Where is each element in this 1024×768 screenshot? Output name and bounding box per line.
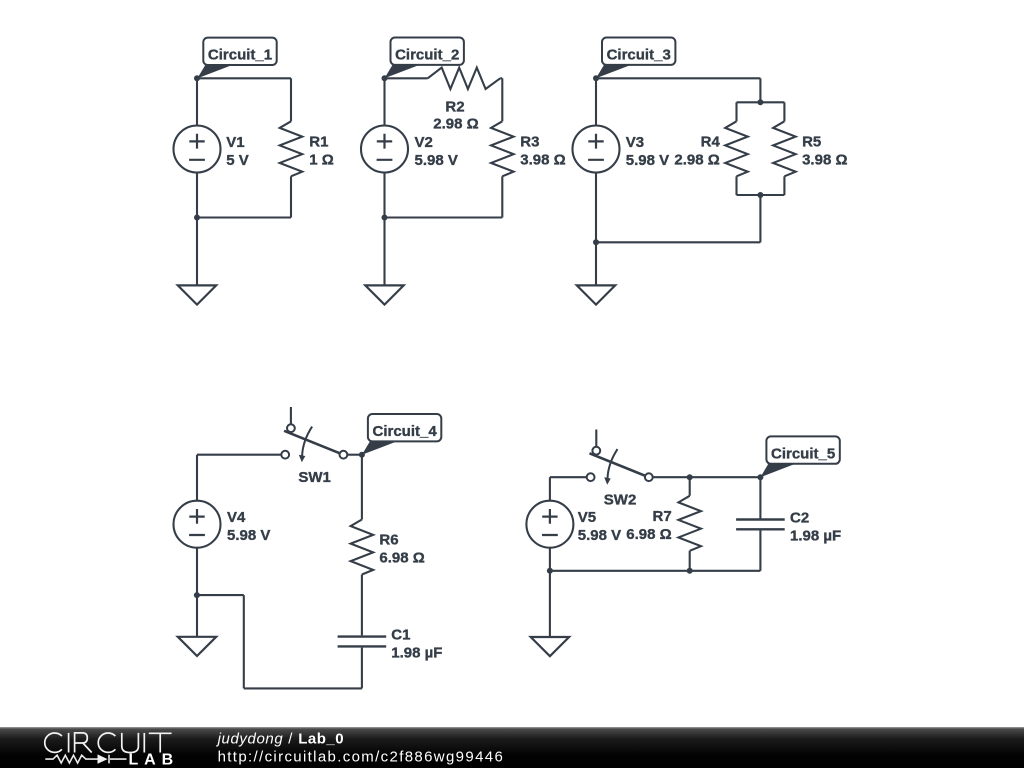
svg-text:C1: C1 [391,627,410,644]
voltage source V2 5.98 V [361,126,458,173]
wire [759,477,761,518]
svg-text:1.98 µF: 1.98 µF [391,644,442,661]
node junction dot [593,239,599,245]
node junction dot [194,215,200,221]
wire [759,531,761,571]
flag label Circuit_4 [362,414,441,455]
CircuitLab logo lettering CIRCUIT [45,733,172,753]
svg-text:V5: V5 [578,509,596,526]
resistor R5 3.98 &#937; [773,121,847,176]
ground [365,285,403,304]
wire [783,176,785,195]
switch SW2 (SPST with actuation arrow) [587,430,653,509]
svg-text:2.98 Ω: 2.98 Ω [433,116,478,133]
wire [290,176,292,217]
svg-text:1.98 µF: 1.98 µF [790,527,841,544]
svg-text:V1: V1 [226,134,244,151]
wire [244,687,362,689]
wire [361,575,363,636]
wire [689,477,691,496]
wire [385,216,503,218]
node junction dot [359,452,365,458]
svg-text:R4: R4 [701,134,721,151]
ground [531,637,569,656]
svg-text:R5: R5 [802,134,821,151]
wire [290,78,292,121]
flag label Circuit_2 [385,38,464,79]
node junction dot [593,75,599,81]
wire [501,176,503,217]
wire [549,477,551,501]
svg-text:5 V: 5 V [226,152,249,169]
resistor R1 1 &#937; [280,121,334,176]
voltage source V4 5.98 V [174,501,271,548]
wire [550,476,587,478]
wire [500,77,502,79]
flag label Circuit_1 [197,38,276,79]
wire [737,101,785,103]
ground [178,637,216,656]
wire [735,176,737,195]
wire [196,173,198,286]
svg-text:6.98 Ω: 6.98 Ω [626,526,671,543]
svg-text:5.98 V: 5.98 V [626,152,669,169]
capacitor C1 1.98 &#181;F [338,627,443,662]
wire [383,173,385,286]
svg-text:1 Ω: 1 Ω [309,151,334,168]
svg-text:Circuit_5: Circuit_5 [771,445,835,462]
flag label Circuit_5 [760,436,839,477]
wire [347,454,362,456]
node junction dot [194,592,200,598]
svg-text:3.98 Ω: 3.98 Ω [520,151,565,168]
svg-text:V2: V2 [415,134,433,151]
wire [383,78,385,125]
svg-text:R7: R7 [653,508,672,525]
node junction dot [382,75,388,81]
wire [737,194,785,196]
wire [595,78,597,125]
wire [653,476,761,478]
wire [243,595,245,688]
wire [689,551,691,571]
wire [783,102,785,121]
wire [197,594,244,596]
wire [197,77,291,79]
svg-text:R6: R6 [379,532,398,549]
voltage source V5 5.98 V [526,501,621,548]
wire [596,77,760,79]
svg-text:C2: C2 [790,509,809,526]
svg-text:2.98 Ω: 2.98 Ω [674,151,719,168]
svg-text:3.98 Ω: 3.98 Ω [802,151,847,168]
svg-text:LAB: LAB [129,752,180,768]
wire [197,454,281,456]
node junction dot [547,568,553,574]
capacitor C2 1.98 &#181;F [736,509,841,544]
wire [596,241,760,243]
wire [549,548,551,637]
wire [759,78,761,102]
node junction dot [757,192,763,198]
voltage source V1 5 V [174,126,249,173]
node junction dot [687,568,693,574]
resistor R6 6.98 &#937; [351,520,425,575]
ground [178,285,216,304]
node junction dot [194,75,200,81]
wire [197,216,291,218]
wire [361,648,363,689]
resistor R2 2.98 Ohm (horizontal) [428,68,501,133]
footer background bar [0,727,1024,768]
svg-text:R3: R3 [520,134,539,151]
wire [595,173,597,286]
voltage source V3 5.98 V [573,126,670,173]
ground [577,285,615,304]
wire [196,78,198,125]
svg-text:http://circuitlab.com/c2f886wg: http://circuitlab.com/c2f886wg99446 [218,749,505,766]
wire [501,78,503,121]
svg-text:Circuit_1: Circuit_1 [208,47,272,64]
wire [550,570,761,572]
resistor R3 3.98 &#937; [491,121,566,176]
svg-text:SW1: SW1 [298,469,331,486]
svg-text:R1: R1 [309,134,328,151]
svg-text:Circuit_2: Circuit_2 [395,47,459,64]
svg-text:5.98 V: 5.98 V [415,152,458,169]
resistor R7 6.98 &#937; [626,496,701,551]
wire [196,455,198,501]
logo diode triangle [98,754,108,763]
svg-text:V3: V3 [626,134,644,151]
svg-text:5.98 V: 5.98 V [227,527,270,544]
svg-text:judydong / Lab_0: judydong / Lab_0 [216,731,344,748]
node junction dot [687,474,693,480]
svg-text:5.98 V: 5.98 V [578,527,621,544]
svg-text:6.98 Ω: 6.98 Ω [379,550,424,567]
svg-text:Circuit_4: Circuit_4 [373,423,438,440]
svg-text:SW2: SW2 [604,492,637,509]
node junction dot [382,215,388,221]
node junction dot [757,99,763,105]
switch SW1 (SPST with actuation arrow) [281,407,347,486]
node junction dot [757,474,763,480]
svg-text:Circuit_3: Circuit_3 [607,47,671,64]
svg-text:R2: R2 [445,98,464,115]
wire [735,102,737,121]
wire [385,77,428,79]
resistor R4 2.98 &#937; [674,121,747,176]
wire [361,455,363,520]
wire [196,548,198,637]
flag label Circuit_3 [596,38,675,79]
logo resistor-diode rule [45,755,126,764]
wire [759,195,761,242]
svg-text:V4: V4 [227,509,246,526]
